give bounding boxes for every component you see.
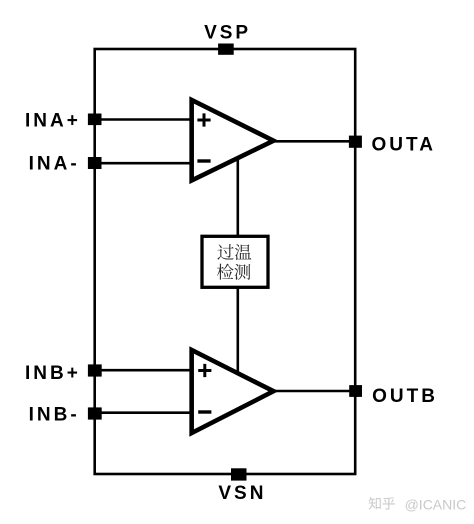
wire INA+ to op-amp A non-inverting input [95,118,192,121]
wire: outer supply rectangle (VSP/VSN rails) [95,49,356,474]
INB- pin square [88,407,102,419]
INA- pin square [88,157,102,169]
svg-text:INB-: INB- [29,404,80,425]
svg-text:OUTB: OUTB [372,386,438,407]
svg-text:@ICANIC: @ICANIC [405,497,467,513]
svg-text:INB+: INB+ [25,363,81,384]
label wen (temperature) [235,244,251,260]
label guo (over) [217,244,233,260]
VSN pin square [231,468,247,480]
INB+ pin square [88,364,102,376]
wire INA- to op-amp A inverting input [95,162,192,165]
svg-text:INA-: INA- [29,153,80,174]
wire op-amp B output to OUTB pin [274,390,356,393]
svg-text:OUTA: OUTA [372,134,436,155]
op-amp B triangle [192,350,274,433]
VSP pin square [218,44,234,55]
op-amp A minus input marking [197,159,210,162]
watermark hu (Zhihu) [383,497,395,510]
svg-text:VSP: VSP [204,23,251,44]
op-amp A triangle [192,100,274,181]
wire op-amp A output to OUTA pin [274,140,356,143]
label ce (measure) [234,264,250,280]
op-amp B plus input marking [198,364,211,377]
op-amp A plus input marking [197,113,210,126]
svg-text:VSN: VSN [218,483,266,504]
op-amp B minus input marking [198,410,211,413]
wire thermal-detect block to op-amp B [237,285,240,375]
OUTA pin square [349,136,362,148]
OUTB pin square [349,385,362,397]
wire INB- to op-amp B inverting input [95,411,192,414]
watermark zhi (Zhihu) [369,497,381,510]
wire op-amp A to thermal-detect block [237,155,240,238]
INA+ pin square [88,114,102,126]
svg-text:INA+: INA+ [25,110,81,131]
wire INB+ to op-amp B non-inverting input [95,369,192,372]
label jian (detect) [217,264,234,280]
thermal detection block (guo-wen jian-ce) [202,236,268,287]
